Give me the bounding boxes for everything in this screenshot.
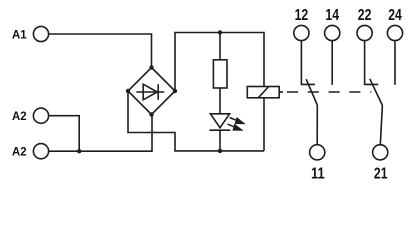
svg-text:A1: A1	[12, 28, 27, 42]
wire 12 NC contact	[301, 41, 315, 85]
node bridge bottom	[149, 112, 153, 116]
LED D	[210, 114, 231, 130]
svg-text:12: 12	[295, 7, 309, 24]
LED arrow 2	[228, 124, 244, 131]
mechanical link (dashed)	[279, 91, 283, 93]
wire 22 NC contact	[365, 41, 379, 85]
wire resistor to LED	[219, 88, 221, 114]
wire top rail to resistor	[219, 33, 221, 60]
terminal 22	[357, 25, 372, 40]
svg-text:22: 22	[358, 7, 372, 24]
terminal 21	[373, 145, 388, 160]
terminal 12	[294, 25, 309, 40]
wire A2 bus to bridge bottom	[49, 115, 152, 152]
resistor R	[213, 60, 227, 88]
svg-text:A2: A2	[12, 109, 27, 123]
terminal 14	[325, 25, 340, 40]
coil diagonal	[258, 87, 268, 98]
wire A2 upper down	[49, 116, 80, 152]
node bridge top	[149, 65, 153, 69]
wire 14 NO contact	[331, 41, 333, 85]
contact arm 2	[370, 79, 383, 106]
svg-text:14: 14	[325, 7, 339, 24]
terminal A1	[33, 26, 48, 41]
contact arm 1	[306, 79, 317, 105]
svg-text:A2: A2	[12, 145, 27, 159]
terminal A2 lower	[33, 144, 48, 159]
wire arm to terminal 21	[380, 105, 382, 144]
wire bridge left to bottom bus	[128, 91, 264, 151]
svg-text:11: 11	[311, 166, 325, 182]
wire 24 NO contact	[394, 41, 396, 85]
node bridge right	[173, 89, 177, 93]
junction bottom bus	[218, 149, 222, 153]
diode inside bridge	[136, 84, 164, 100]
LED arrow 1	[230, 117, 246, 124]
wire bridge right to top rail	[175, 33, 264, 92]
wire arm to terminal 11	[316, 105, 318, 145]
node bridge left	[126, 89, 130, 93]
wire LED to bottom bus	[219, 130, 221, 151]
relay coil K	[247, 87, 279, 98]
terminal 24	[387, 25, 402, 40]
svg-text:21: 21	[374, 166, 388, 182]
wire A1 to bridge top	[49, 34, 152, 68]
junction top rail	[218, 30, 222, 34]
terminal 11	[310, 145, 325, 160]
terminal A2 upper	[33, 108, 48, 123]
bridge rectifier diamond	[128, 68, 175, 115]
wire coil to bottom bus	[263, 98, 265, 151]
junction A2	[77, 149, 81, 153]
svg-text:24: 24	[388, 7, 402, 24]
